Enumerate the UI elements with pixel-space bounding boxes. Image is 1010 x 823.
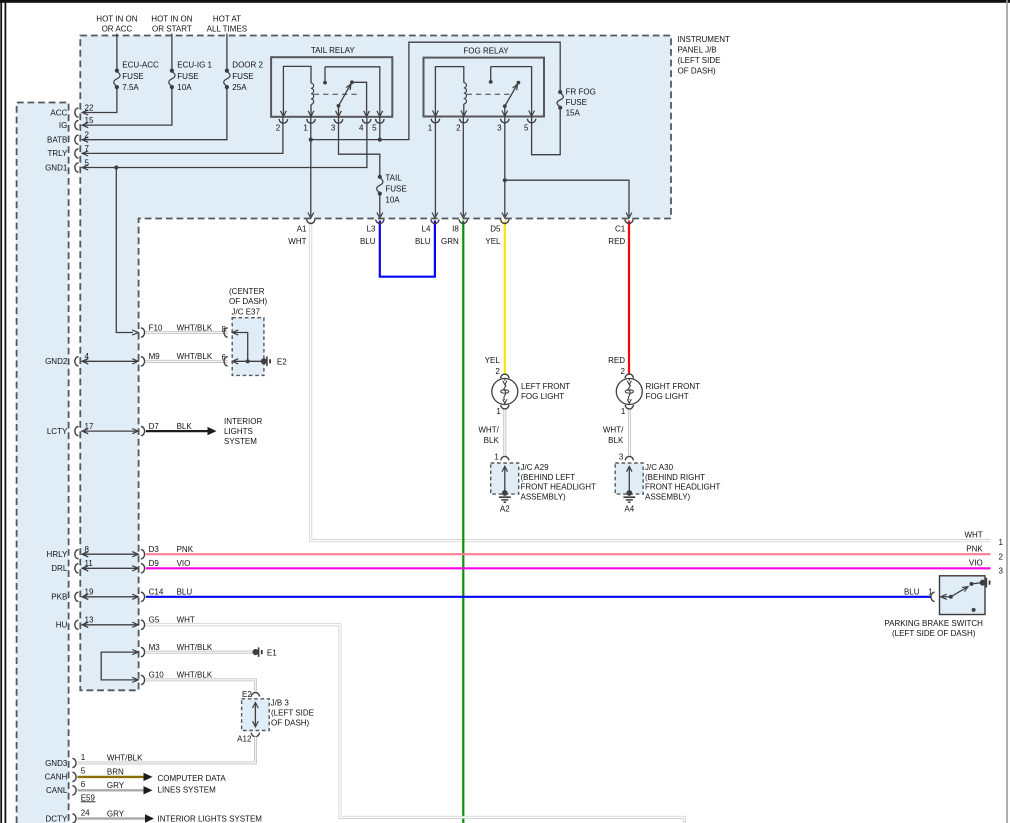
- label net number 1: [999, 538, 1004, 547]
- label WHT/BLK M3: [177, 643, 213, 652]
- connector pin CANH 5: [45, 767, 86, 782]
- label C1 RED: [608, 225, 625, 247]
- label VIO left: [177, 559, 191, 568]
- svg-text:OR START: OR START: [152, 25, 192, 34]
- label WHT right end: [964, 530, 982, 539]
- svg-text:DCTY: DCTY: [46, 814, 68, 823]
- svg-text:WHT/: WHT/: [603, 426, 624, 435]
- wire FR FOG fuse feed: [559, 70, 561, 90]
- svg-text:L3: L3: [367, 225, 376, 234]
- svg-text:CANL: CANL: [46, 786, 68, 795]
- J/B exit pin A1: [307, 213, 315, 224]
- label PARKING BRAKE SWITCH (LEFT SIDE OF DASH): [884, 619, 983, 638]
- svg-text:E2: E2: [242, 690, 252, 699]
- fog relay coil branch (pin1 to coil): [435, 67, 463, 117]
- svg-text:YEL: YEL: [485, 356, 501, 365]
- svg-text:OF DASH): OF DASH): [678, 67, 717, 76]
- connector pin M9: [132, 352, 160, 366]
- svg-text:WHT/BLK: WHT/BLK: [177, 643, 213, 652]
- switch box PARKING BRAKE SWITCH: [940, 576, 986, 615]
- svg-text:L4: L4: [422, 225, 431, 234]
- connector pin 6 J/C E37: [222, 353, 239, 366]
- tail relay pin 4: [359, 111, 371, 133]
- svg-text:F10: F10: [149, 323, 163, 332]
- svg-text:D9: D9: [149, 559, 160, 568]
- svg-text:PKB: PKB: [51, 593, 67, 602]
- connector pin D7: [132, 422, 159, 436]
- svg-text:D3: D3: [149, 545, 160, 554]
- connector pin G5: [132, 616, 160, 630]
- connector pin M3: [132, 643, 160, 657]
- label WHT/BLK right: [603, 426, 624, 446]
- svg-text:(BEHIND RIGHT: (BEHIND RIGHT: [645, 473, 705, 482]
- svg-text:E59: E59: [81, 793, 96, 802]
- wire C14 BLU to parking brake switch: [146, 596, 931, 598]
- svg-text:VIO: VIO: [177, 559, 191, 568]
- wire G5 WHT down to page bottom: [146, 625, 685, 823]
- fog relay pin 1: [428, 111, 440, 133]
- label DOOR 2 FUSE 25A: [232, 61, 263, 93]
- svg-text:2: 2: [999, 553, 1004, 562]
- connector pin HRLY 8: [47, 545, 90, 559]
- svg-text:E1: E1: [267, 648, 277, 657]
- svg-text:2: 2: [276, 124, 281, 133]
- label net number 2: [999, 553, 1004, 562]
- ground E2: [261, 357, 270, 367]
- svg-text:I8: I8: [452, 225, 459, 234]
- junction box J/C E37 (dashed): [232, 318, 264, 376]
- connector pin E2 (J/B 3): [242, 690, 259, 699]
- svg-text:FRONT HEADLIGHT: FRONT HEADLIGHT: [521, 483, 597, 492]
- tail relay pin 5: [372, 111, 384, 133]
- svg-text:10A: 10A: [385, 196, 400, 205]
- connector pin 1 parking brake: [928, 587, 947, 601]
- wire TRLY to tail relay pin 2: [82, 117, 283, 153]
- svg-text:WHT/BLK: WHT/BLK: [177, 323, 213, 332]
- wire LCTY to D7: [82, 429, 138, 434]
- wire A1 WHT down and right to page edge: [311, 221, 991, 541]
- svg-text:A12: A12: [237, 735, 252, 744]
- fuse DOOR 2 25A: [224, 69, 230, 90]
- wire HU to G5: [82, 622, 138, 627]
- wire right fog to J/C A30 (WHT/BLK): [628, 410, 631, 457]
- fog relay mechanical link (dashed): [467, 93, 510, 95]
- wire L3-L4 BLU jumper: [380, 221, 435, 277]
- wire fog pin1 down to L4: [434, 117, 436, 217]
- svg-text:D7: D7: [149, 422, 160, 431]
- label E2: [277, 357, 287, 366]
- label RIGHT FRONT FOG LIGHT: [646, 382, 701, 401]
- label WHT G5: [177, 616, 195, 625]
- svg-text:ASSEMBLY): ASSEMBLY): [521, 492, 567, 501]
- svg-text:HOT IN ON: HOT IN ON: [96, 15, 137, 24]
- svg-text:A2: A2: [500, 504, 510, 513]
- wire TAIL fuse to L3: [379, 194, 381, 217]
- fuse TAIL 10A: [377, 175, 383, 196]
- node fog pin3 branch junction: [503, 178, 507, 182]
- svg-text:RED: RED: [608, 356, 625, 365]
- node J/C E37 internal junction: [246, 359, 250, 363]
- svg-text:GRY: GRY: [107, 809, 125, 818]
- svg-text:SYSTEM: SYSTEM: [224, 437, 257, 446]
- wire left fog to J/C A29 (WHT/BLK): [503, 410, 506, 457]
- svg-text:1: 1: [81, 753, 86, 762]
- svg-text:YEL: YEL: [485, 237, 501, 246]
- wire J/B 3 internal: [253, 703, 259, 727]
- svg-text:J/C E37: J/C E37: [232, 307, 261, 316]
- label E1: [267, 648, 277, 657]
- svg-text:5: 5: [85, 158, 90, 167]
- tail relay coil: [311, 83, 314, 117]
- svg-text:OR ACC: OR ACC: [102, 25, 133, 34]
- svg-text:BLU: BLU: [904, 587, 920, 596]
- instrument panel J/B box (dashed L-shape): [80, 36, 671, 691]
- svg-text:PANEL J/B: PANEL J/B: [678, 46, 717, 55]
- svg-text:WHT/: WHT/: [478, 426, 499, 435]
- connector pin D3: [132, 545, 159, 559]
- svg-text:INTERIOR LIGHTS SYSTEM: INTERIOR LIGHTS SYSTEM: [158, 815, 263, 823]
- svg-text:OF DASH): OF DASH): [229, 297, 268, 306]
- wire M3-G10 jumper bracket: [101, 652, 138, 680]
- svg-text:3: 3: [331, 124, 336, 133]
- label L3 BLU: [360, 225, 376, 247]
- label WHT/BLK G10: [177, 671, 213, 680]
- svg-text:HOT AT: HOT AT: [213, 15, 241, 24]
- connector pin DRL 11: [51, 559, 93, 573]
- svg-text:5: 5: [81, 767, 86, 776]
- svg-text:FOG LIGHT: FOG LIGHT: [521, 392, 564, 401]
- wire branch to C1: [505, 180, 629, 216]
- label A1 WHT: [288, 225, 307, 247]
- svg-text:TRLY: TRLY: [47, 149, 68, 158]
- wire tail pin3 to TAIL fuse: [339, 117, 380, 177]
- lamp RIGHT FRONT FOG LIGHT: [616, 374, 642, 409]
- wire I8 GRN down off page: [462, 221, 464, 823]
- tail relay pin 2: [276, 111, 288, 133]
- label WHT/BLK left: [478, 426, 499, 446]
- svg-text:7.5A: 7.5A: [122, 83, 139, 92]
- J/B exit pin C1: [625, 213, 633, 224]
- svg-text:ECU-IG 1: ECU-IG 1: [177, 61, 212, 70]
- J/B exit pin L3: [376, 213, 384, 224]
- label TAIL RELAY: [311, 46, 356, 55]
- svg-text:IG: IG: [59, 121, 67, 130]
- wire HRLY to D3: [82, 552, 138, 557]
- svg-text:VIO: VIO: [969, 559, 983, 568]
- svg-text:(BEHIND LEFT: (BEHIND LEFT: [521, 473, 576, 482]
- wire tail pin1 down to A1: [310, 117, 312, 216]
- svg-text:1: 1: [621, 407, 626, 416]
- svg-text:BLU: BLU: [415, 237, 431, 246]
- label ECU-ACC FUSE 7.5A: [122, 61, 159, 93]
- svg-text:CANH: CANH: [45, 773, 68, 782]
- svg-text:24: 24: [81, 808, 90, 817]
- svg-text:FUSE: FUSE: [122, 72, 143, 81]
- label pin 1 left fog: [496, 407, 501, 416]
- svg-text:HRLY: HRLY: [47, 550, 68, 559]
- svg-text:DOOR 2: DOOR 2: [232, 61, 263, 70]
- connector pin CANL 6: [46, 780, 86, 795]
- junction box J/B 3 (dashed): [242, 699, 270, 731]
- svg-text:GND3: GND3: [45, 759, 68, 768]
- wire D3 PNK to page edge: [146, 553, 991, 555]
- wire GND1 branch down to F10: [116, 168, 133, 333]
- svg-text:C1: C1: [615, 225, 626, 234]
- svg-text:3: 3: [497, 123, 502, 132]
- tail relay pin 3: [331, 111, 343, 133]
- tail relay mechanical link (dashed): [314, 93, 359, 95]
- wire fog pin3 down to D5: [504, 117, 506, 217]
- wire hot feed into ECU-IG fuse: [171, 34, 173, 71]
- wire C1 RED down to right fog light: [628, 221, 630, 376]
- fog relay fixed contact from pin5 bracket: [489, 67, 532, 117]
- wire D7 BLK to interior lights system: [146, 427, 217, 435]
- svg-text:15A: 15A: [566, 109, 581, 118]
- wire G10 WHT/BLK to J/B 3 E2: [146, 680, 256, 692]
- svg-text:WHT: WHT: [288, 237, 306, 246]
- relay box TAIL RELAY: [271, 57, 392, 117]
- wire GND2 to M9: [82, 359, 138, 364]
- svg-text:RED: RED: [608, 237, 625, 246]
- lamp LEFT FRONT FOG LIGHT: [492, 374, 518, 409]
- label (CENTER OF DASH) J/C E37: [229, 287, 268, 316]
- label VIO right end: [969, 559, 983, 568]
- wire CANL GRY to lines system: [78, 786, 153, 794]
- svg-text:2: 2: [85, 131, 90, 140]
- svg-text:ASSEMBLY): ASSEMBLY): [645, 492, 691, 501]
- svg-text:3: 3: [999, 567, 1004, 576]
- svg-text:INTERIOR: INTERIOR: [224, 417, 262, 426]
- ground J/C A30 / A4: [615, 452, 643, 513]
- svg-text:HOT IN ON: HOT IN ON: [151, 15, 192, 24]
- node tail pin1 junction: [309, 138, 313, 142]
- label BLU right end: [904, 587, 920, 596]
- ground E1: [253, 647, 262, 657]
- label J/B 3 (LEFT SIDE OF DASH): [271, 698, 314, 727]
- connector pin BATB 2: [47, 131, 90, 145]
- svg-text:LCTY: LCTY: [47, 427, 68, 436]
- label HOT IN ON OR START: [151, 15, 192, 34]
- svg-text:BLK: BLK: [484, 436, 500, 445]
- wire F10 WHT/BLK to J/C E37 pin 8: [146, 331, 228, 334]
- svg-text:FOG LIGHT: FOG LIGHT: [646, 392, 689, 401]
- svg-text:LINES SYSTEM: LINES SYSTEM: [158, 786, 217, 795]
- svg-text:G10: G10: [149, 671, 165, 680]
- connector pin GND3 1: [45, 753, 86, 768]
- connector pin C14: [132, 588, 164, 602]
- svg-text:FOG RELAY: FOG RELAY: [463, 47, 509, 56]
- connector pin ACC 22: [50, 103, 94, 117]
- svg-text:22: 22: [85, 103, 94, 112]
- svg-text:2: 2: [456, 123, 461, 132]
- svg-text:G5: G5: [149, 616, 160, 625]
- page top border bar: [0, 0, 1010, 3]
- wire tail pin5 to junction: [379, 117, 381, 140]
- svg-text:DRL: DRL: [51, 564, 68, 573]
- svg-text:BRN: BRN: [107, 768, 124, 777]
- svg-text:PNK: PNK: [177, 545, 194, 554]
- svg-text:3: 3: [619, 452, 624, 461]
- label L4 BLU: [415, 225, 431, 247]
- svg-text:FUSE: FUSE: [385, 184, 406, 193]
- node GND1 branch junction: [114, 165, 118, 169]
- svg-text:INSTRUMENT: INSTRUMENT: [678, 35, 731, 44]
- J/B exit pin D5: [501, 213, 509, 224]
- fog relay pin 3: [497, 111, 509, 133]
- svg-text:A4: A4: [624, 504, 634, 513]
- label PNK right end: [966, 545, 983, 554]
- label pin 1 right fog: [621, 407, 626, 416]
- svg-text:GRN: GRN: [441, 237, 459, 246]
- svg-text:RIGHT FRONT: RIGHT FRONT: [646, 382, 701, 391]
- relay box FOG RELAY: [424, 58, 545, 117]
- J/B exit pin I8: [459, 213, 467, 224]
- svg-text:(LEFT SIDE: (LEFT SIDE: [271, 709, 314, 718]
- svg-text:FR FOG: FR FOG: [566, 88, 596, 97]
- svg-text:TAIL: TAIL: [385, 173, 402, 182]
- connector pin A12 (J/B 3): [237, 733, 259, 744]
- label J/C A29 (BEHIND LEFT FRONT HEADLIGHT ASSEMBLY): [521, 463, 597, 501]
- parking brake lower contact: [972, 608, 976, 612]
- ECU connector box (dashed): [17, 103, 69, 823]
- svg-text:D5: D5: [490, 225, 501, 234]
- connector pin GND2 4: [45, 352, 89, 366]
- svg-text:FRONT HEADLIGHT: FRONT HEADLIGHT: [645, 483, 721, 492]
- label I8 GRN: [441, 225, 459, 247]
- svg-text:5: 5: [524, 123, 529, 132]
- svg-text:COMPUTER DATA: COMPUTER DATA: [158, 774, 227, 783]
- wire J/C E37 pin6 to ground: [232, 360, 264, 362]
- connector pin G10: [132, 671, 164, 685]
- svg-text:BLU: BLU: [177, 588, 193, 597]
- svg-text:TAIL RELAY: TAIL RELAY: [311, 46, 356, 55]
- label net number 3: [999, 567, 1004, 576]
- svg-text:2: 2: [621, 367, 626, 376]
- wire GND1 to tail relay pin 4: [82, 117, 367, 168]
- wire DCTY GRY to interior lights system: [78, 814, 155, 822]
- connector pin 8 J/C E37: [222, 325, 239, 337]
- wire D5 YEL down to left fog light: [504, 221, 506, 376]
- wire DRL to D9: [82, 566, 138, 571]
- label YEL at fog light: [485, 356, 501, 376]
- wire A12 WHT/BLK down to GND3: [78, 737, 256, 764]
- tail relay switch blade pin3-pin4: [337, 80, 367, 116]
- svg-text:WHT: WHT: [177, 616, 195, 625]
- svg-text:BATB: BATB: [47, 136, 67, 145]
- svg-text:WHT/BLK: WHT/BLK: [177, 671, 213, 680]
- connector pin TRLY 7: [47, 144, 89, 158]
- svg-text:1: 1: [496, 407, 501, 416]
- label BRN: [107, 768, 124, 777]
- label HOT AT ALL TIMES: [207, 15, 247, 34]
- connector pin D9: [132, 559, 159, 573]
- wire hot feed into ECU-ACC fuse: [116, 34, 118, 71]
- label ECU-IG 1 FUSE 10A: [177, 61, 212, 93]
- svg-text:GRY: GRY: [107, 781, 125, 790]
- label HOT IN ON OR ACC: [96, 15, 137, 34]
- svg-text:FUSE: FUSE: [566, 98, 587, 107]
- wire D9 VIO to page edge: [146, 567, 991, 569]
- svg-text:15: 15: [85, 116, 94, 125]
- label PNK left: [177, 545, 194, 554]
- svg-text:BLK: BLK: [608, 436, 624, 445]
- wire FR FOG fuse to fog pin 5: [532, 108, 561, 155]
- svg-text:ACC: ACC: [50, 108, 67, 117]
- label FR FOG FUSE 15A: [566, 88, 596, 118]
- svg-text:ECU-ACC: ECU-ACC: [122, 61, 159, 70]
- svg-text:1: 1: [428, 123, 433, 132]
- connector pin IG 15: [59, 116, 94, 130]
- svg-text:(LEFT SIDE OF DASH): (LEFT SIDE OF DASH): [892, 629, 976, 638]
- svg-text:BLU: BLU: [360, 237, 376, 246]
- svg-text:WHT/BLK: WHT/BLK: [107, 753, 143, 762]
- svg-text:ALL TIMES: ALL TIMES: [207, 25, 247, 34]
- svg-text:7: 7: [85, 144, 90, 153]
- connector pin GND1 5: [45, 158, 89, 172]
- wire hot feed into DOOR 2 fuse: [226, 34, 228, 71]
- svg-text:5: 5: [372, 124, 377, 133]
- label INTERIOR LIGHTS SYSTEM (DCTY): [158, 815, 263, 823]
- fuse FR FOG 15A: [557, 90, 563, 110]
- label D5 YEL: [485, 225, 501, 247]
- fog relay switch blade pin3: [503, 81, 520, 117]
- fuse ECU-ACC 7.5A: [114, 69, 120, 90]
- svg-text:1: 1: [494, 452, 499, 461]
- label BLK: [177, 422, 193, 431]
- svg-text:FUSE: FUSE: [177, 72, 198, 81]
- svg-text:(LEFT SIDE: (LEFT SIDE: [678, 56, 721, 65]
- connector pin LCTY 17: [47, 422, 94, 436]
- label COMPUTER DATA LINES SYSTEM: [158, 774, 227, 794]
- svg-text:25A: 25A: [232, 83, 247, 92]
- ground J/C A29 / A2: [491, 452, 519, 513]
- connector pin F10: [132, 323, 163, 337]
- svg-text:OF DASH): OF DASH): [271, 718, 310, 727]
- svg-text:M3: M3: [149, 643, 161, 652]
- svg-text:4: 4: [359, 124, 364, 133]
- svg-text:1: 1: [303, 124, 308, 133]
- svg-text:2: 2: [495, 367, 500, 376]
- label WHT/BLK GND3: [107, 753, 143, 762]
- label LEFT FRONT FOG LIGHT: [521, 382, 570, 401]
- svg-text:PNK: PNK: [966, 545, 983, 554]
- tail relay pin 1: [303, 111, 315, 133]
- svg-text:6: 6: [81, 780, 86, 789]
- label TAIL FUSE 10A: [385, 173, 406, 204]
- label INSTRUMENT PANEL J/B: [678, 35, 731, 76]
- svg-text:1: 1: [999, 538, 1004, 547]
- label BLU left: [177, 588, 193, 597]
- label FOG RELAY: [463, 47, 509, 56]
- J/B exit pin L4: [431, 213, 439, 224]
- tail relay fixed contact from pin5 bracket: [323, 67, 380, 117]
- wire junction bus up and over to FR FOG fuse: [311, 42, 560, 139]
- wire PKB to C14: [82, 594, 138, 599]
- svg-text:LEFT FRONT: LEFT FRONT: [521, 382, 570, 391]
- wire M3 WHT/BLK to ground E1: [146, 651, 253, 654]
- svg-text:HU: HU: [56, 621, 68, 630]
- svg-text:M9: M9: [149, 352, 161, 361]
- svg-text:E2: E2: [277, 357, 287, 366]
- svg-text:J/C A29: J/C A29: [521, 463, 550, 472]
- wire fog pin2 down to I8: [462, 117, 464, 217]
- node parking brake ground contact: [980, 580, 986, 586]
- wire ACC to ECU-ACC fuse: [82, 87, 117, 112]
- svg-text:PARKING BRAKE SWITCH: PARKING BRAKE SWITCH: [884, 619, 983, 628]
- wire J/C E37 pin8 internal: [232, 333, 247, 362]
- fog relay coil: [464, 83, 467, 117]
- wire M9 WHT/BLK to J/C E37 pin 6: [146, 360, 228, 363]
